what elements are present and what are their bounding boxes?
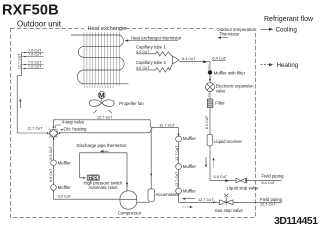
distributor triangle <box>173 56 180 64</box>
arrow into HPS <box>80 177 84 179</box>
svg-text:9.5 CuT: 9.5 CuT <box>49 146 53 160</box>
distributor tube stubs with 7.0 CuT labels <box>22 53 44 69</box>
svg-text:9.5 CuT: 9.5 CuT <box>49 168 53 182</box>
svg-text:7.0 CuT: 7.0 CuT <box>28 53 42 57</box>
discharge pipe loop <box>80 153 127 191</box>
heat exchanger fins <box>84 32 119 85</box>
heating dashed arrow below gas line <box>183 206 191 208</box>
liquid line to stop valve <box>210 180 236 182</box>
svg-text:4.0 CuT: 4.0 CuT <box>136 50 150 54</box>
heating dashed marks below EEV <box>207 93 209 96</box>
svg-text:Heating: Heating <box>277 62 299 69</box>
electronic expansion valve <box>206 83 255 94</box>
filter F1 <box>207 99 225 108</box>
outdoor temperature thermistor label <box>216 27 258 39</box>
svg-text:Liquid stop valve: Liquid stop valve <box>227 185 260 190</box>
svg-text:Discharge pipe thermistor: Discharge pipe thermistor <box>77 143 128 148</box>
wire from distributor to EEV column <box>179 60 210 63</box>
svg-text:ON: heating: ON: heating <box>64 127 88 132</box>
svg-text:Muffler: Muffler <box>183 189 197 194</box>
capillary tube 2 <box>136 60 173 72</box>
dotted shroud line <box>84 86 115 88</box>
compressor <box>118 191 142 216</box>
muffler M4 <box>176 164 182 170</box>
svg-text:Muffler: Muffler <box>183 164 197 169</box>
capillary tube 1 <box>136 45 173 57</box>
flow arrow up on header <box>19 101 21 108</box>
accumulator <box>148 189 155 202</box>
gas stop valve <box>213 194 243 213</box>
flow arrow right <box>225 179 229 182</box>
svg-text:Compressor: Compressor <box>118 210 142 215</box>
wire: 4-way valve right port line B <box>60 128 153 133</box>
wire from header to 4-way valve left port <box>17 132 47 134</box>
svg-text:Filter: Filter <box>215 100 225 105</box>
svg-text:Heat exchanger thermistor: Heat exchanger thermistor <box>131 35 182 40</box>
svg-text:valve: valve <box>216 88 226 93</box>
svg-text:6.4 CuT: 6.4 CuT <box>262 181 276 185</box>
svg-text:12.7 CuT: 12.7 CuT <box>175 171 179 187</box>
outdoor unit enclosure (dashed box) <box>11 29 256 218</box>
svg-text:12.7 CuT: 12.7 CuT <box>175 145 179 161</box>
svg-text:3D114451: 3D114451 <box>274 216 318 226</box>
main liquid column wire <box>209 62 211 181</box>
svg-text:Propeller fan: Propeller fan <box>119 101 144 106</box>
svg-text:Muffler with filter: Muffler with filter <box>214 70 246 75</box>
heating dashed arrow above muffler <box>207 65 209 70</box>
legend: Refrigerant flow <box>261 16 314 69</box>
svg-text:12.7 CuT: 12.7 CuT <box>260 203 276 207</box>
muffler M1 <box>51 160 57 166</box>
muffler M2 <box>51 185 57 191</box>
heating arrow <box>261 64 271 66</box>
svg-text:Automatic reset: Automatic reset <box>88 185 118 190</box>
gas line to gas stop valve <box>179 201 220 203</box>
svg-text:Cooling: Cooling <box>276 27 298 34</box>
svg-text:Muffler: Muffler <box>58 160 72 165</box>
cooling flow arrow down <box>209 77 211 79</box>
header pipe from distributor to 4-way valve <box>17 53 21 134</box>
suction wire to compressor <box>54 198 121 200</box>
svg-text:Field piping: Field piping <box>262 174 285 179</box>
svg-text:Refrigerant flow: Refrigerant flow <box>264 16 314 23</box>
heat exchanger label <box>84 24 126 31</box>
cooling arrow <box>261 28 271 30</box>
accumulator drop wire <box>150 130 152 189</box>
cooling arrow left above gas line <box>182 198 185 200</box>
muffler M3 <box>176 136 182 142</box>
svg-text:7.0 CuT: 7.0 CuT <box>28 65 42 69</box>
svg-text:12.7 CuT: 12.7 CuT <box>159 124 175 128</box>
svg-text:Heat exchanger: Heat exchanger <box>88 26 128 32</box>
svg-text:12.7 CuT: 12.7 CuT <box>198 198 214 202</box>
svg-text:9.5 CuT: 9.5 CuT <box>58 194 72 198</box>
svg-text:6.4 CuT: 6.4 CuT <box>205 115 209 129</box>
svg-text:6.4 CuT: 6.4 CuT <box>214 175 228 179</box>
propeller fan <box>84 87 144 113</box>
svg-text:Capillary tube 2: Capillary tube 2 <box>136 60 166 65</box>
muffler M5 <box>176 188 182 194</box>
wire compressor to accumulator <box>137 201 150 203</box>
liquid stop valve <box>227 178 260 191</box>
svg-text:6.4 CuT: 6.4 CuT <box>213 57 227 61</box>
ON: heating label <box>60 129 63 131</box>
svg-text:4.0 CuT: 4.0 CuT <box>136 66 150 70</box>
gas line to muffler column <box>154 128 179 203</box>
svg-text:12.7 CuT: 12.7 CuT <box>18 53 22 69</box>
svg-text:4-way valve: 4-way valve <box>62 120 85 125</box>
svg-text:Field piping: Field piping <box>260 197 283 202</box>
svg-text:Thermistor: Thermistor <box>219 32 240 37</box>
wire: 4-way valve top port line A <box>54 120 154 128</box>
flow arrow up on discharge pipe <box>126 181 128 184</box>
flow arrows below receiver: solid down / dashed up <box>205 157 207 166</box>
svg-text:Liquid receiver: Liquid receiver <box>214 139 243 144</box>
svg-text:Muffler: Muffler <box>183 136 197 141</box>
svg-text:Capillary tube 1: Capillary tube 1 <box>136 45 166 50</box>
flow arrow right <box>203 60 207 63</box>
svg-text:6.4 CuT: 6.4 CuT <box>182 57 196 61</box>
svg-text:12.7 CuT: 12.7 CuT <box>97 116 113 120</box>
high pressure switch HPS <box>87 175 99 181</box>
liquid receiver <box>207 134 212 146</box>
fan blades <box>89 100 101 107</box>
svg-text:Gas stop valve: Gas stop valve <box>215 208 244 213</box>
muffler with filter <box>208 70 212 74</box>
svg-text:Outdoor unit: Outdoor unit <box>17 19 62 28</box>
air flow marks <box>93 110 97 113</box>
svg-text:RXF50B: RXF50B <box>2 3 59 19</box>
fan motor M <box>98 92 105 99</box>
4-way valve bottom wire through mufflers <box>53 137 55 199</box>
svg-text:Muffler: Muffler <box>58 185 72 190</box>
4-way valve <box>47 127 60 140</box>
heat exchanger serpentine pipe <box>71 35 129 84</box>
heat exchanger thermistor label with arrow <box>125 35 182 41</box>
svg-text:12.7 CuT: 12.7 CuT <box>27 127 43 131</box>
